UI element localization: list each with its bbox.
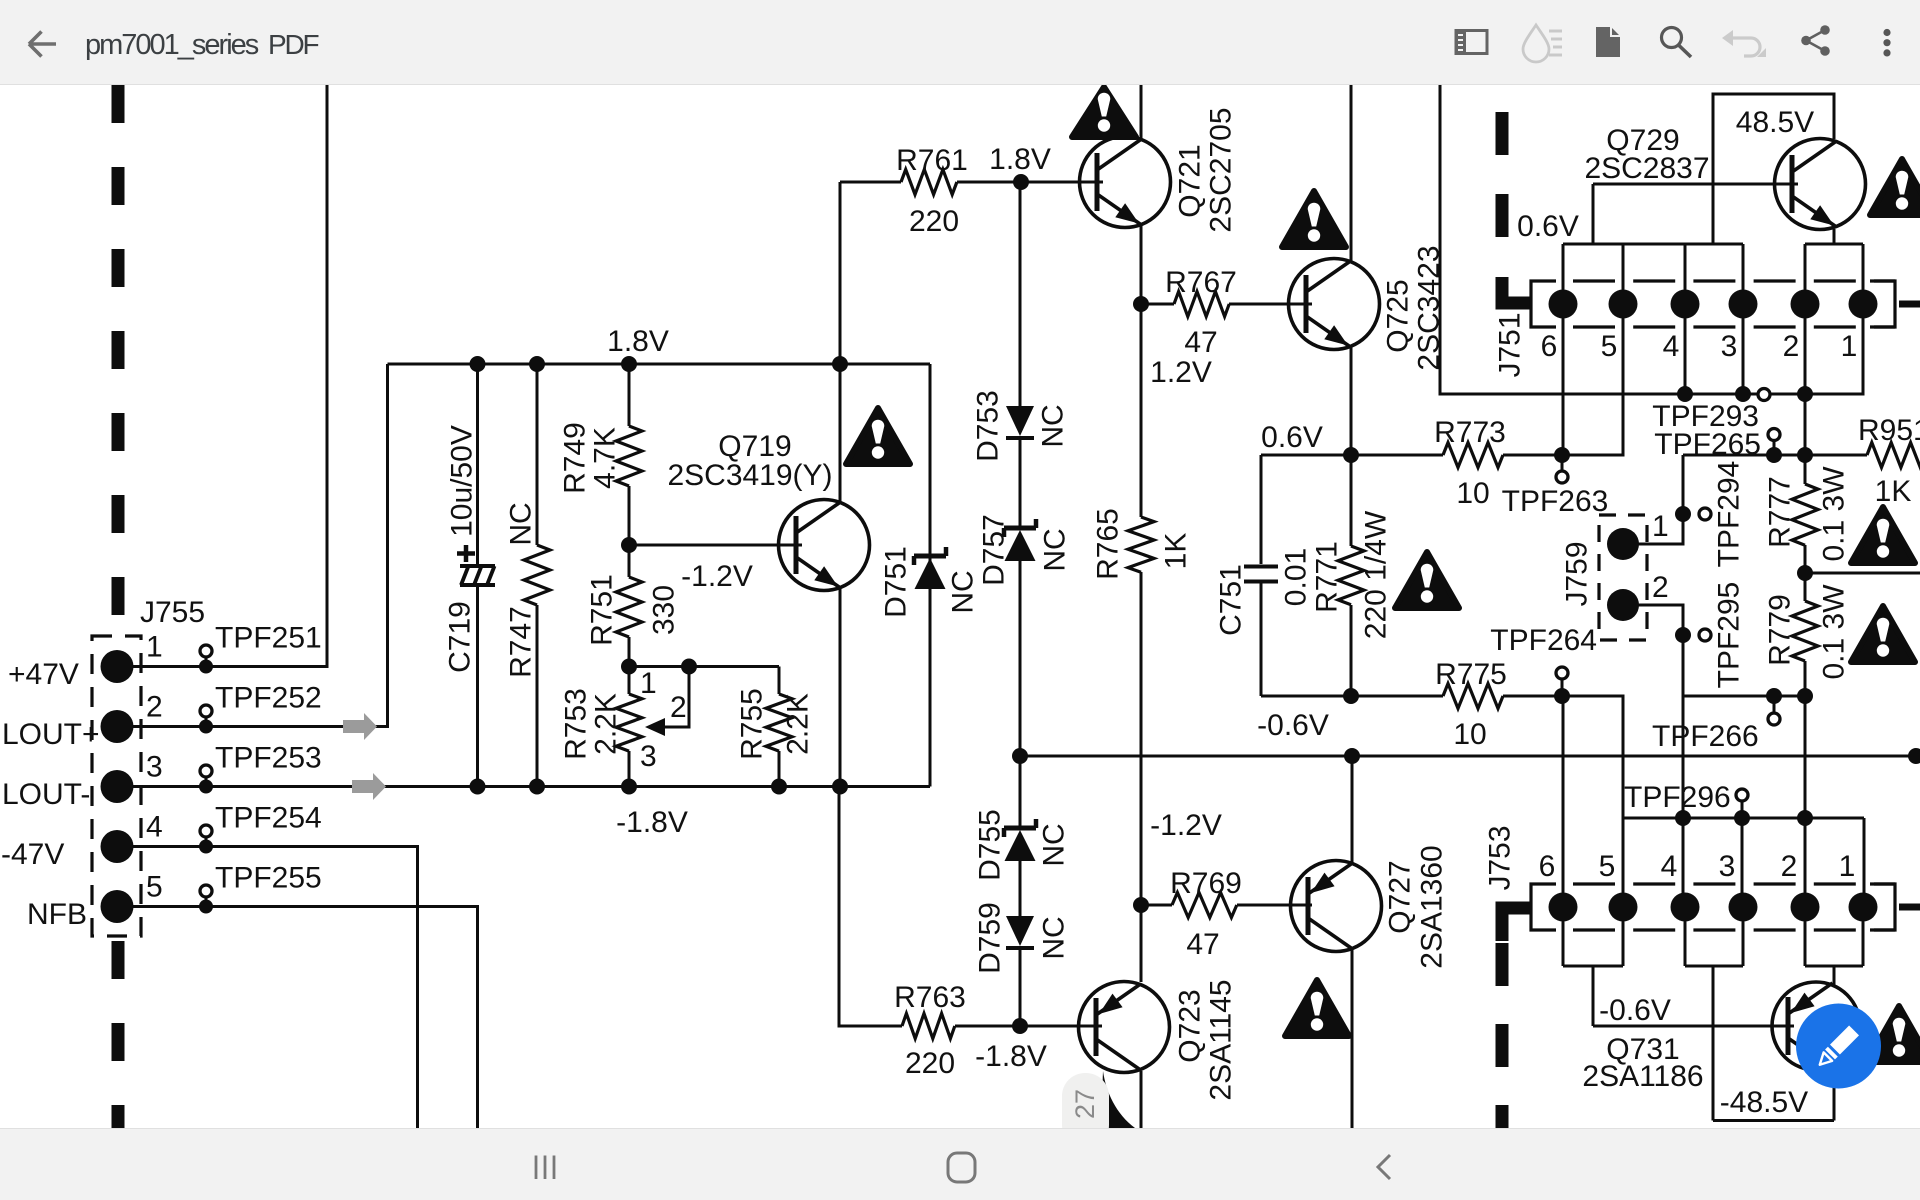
svg-text:R771: R771 [1311,541,1344,613]
wire J753 pin3 leg [1741,818,1744,893]
resistor R763 [902,1014,955,1039]
wire LOUT+ pin2 to 1.8V rail riser [133,364,388,727]
svg-text:1.8V: 1.8V [989,143,1051,176]
test point TPF294 [1699,508,1711,520]
svg-text:NC: NC [947,570,980,613]
junction TPF263 [1554,447,1570,463]
svg-text:R747: R747 [505,606,538,678]
svg-text:1: 1 [146,631,163,664]
wire J751 pin leg up [1862,244,1865,292]
wire Q731 emitter riser [1833,966,1836,985]
svg-text:Q723: Q723 [1174,989,1207,1062]
svg-text:1: 1 [1841,330,1858,363]
test point TPF265 [1773,441,1776,455]
svg-text:C751: C751 [1215,564,1248,636]
junction y818 [1797,810,1813,826]
svg-text:TPF251: TPF251 [215,622,322,655]
svg-text:TPF255: TPF255 [215,862,322,895]
wire trimmer wiper [652,667,689,728]
svg-text:220: 220 [909,205,959,238]
diode D755 zener [1002,828,1007,837]
svg-text:TPF254: TPF254 [215,802,322,835]
wire -47V pin4 down [133,847,418,1129]
wire J753 pin6 riser [1562,696,1565,893]
svg-text:1K: 1K [1160,533,1193,570]
wire collector net riser [1440,85,1863,394]
svg-text:5: 5 [1599,850,1616,883]
svg-text:2SA1360: 2SA1360 [1416,845,1449,968]
svg-text:pm7001_series: pm7001_series [85,29,259,61]
wire J759 pin2 to TPF295 [1638,605,1683,696]
wire D751 column (1.8V to -1.8V) [929,364,932,787]
svg-text:4: 4 [1661,850,1678,883]
resistor R779 [1792,601,1818,661]
warning triangle Q727 [1285,980,1349,1036]
wire J751 pin leg down [1622,316,1625,455]
svg-text:NFB: NFB [27,898,87,931]
icon document [1596,27,1620,57]
svg-text:PDF: PDF [268,29,318,60]
svg-text:NC: NC [505,502,538,545]
wire Q721 emitter column [1140,226,1143,517]
svg-text:2: 2 [146,691,163,724]
svg-text:2SA1145: 2SA1145 [1205,979,1238,1100]
wire NFB pin5 down [133,907,478,1129]
svg-text:1.2V: 1.2V [1150,356,1212,389]
wire J751 pin leg up [1622,244,1625,292]
transistor Q721 2SC2705 [1080,137,1171,228]
connector J759 pin 2 [1607,589,1639,621]
floating action button edit [1796,1004,1881,1089]
svg-text:-1.2V: -1.2V [681,560,753,593]
junction TPF266 wire left [1797,688,1813,704]
junction [771,779,787,795]
test point TPF293 [1758,389,1770,401]
resistor R761 [840,181,901,184]
test point TPF251 [205,657,208,667]
svg-text:LOUT-: LOUT- [2,778,90,811]
wire -48.5V riser [1712,966,1715,1121]
svg-text:6: 6 [1541,330,1558,363]
svg-text:-48.5V: -48.5V [1720,1086,1808,1119]
junction [529,779,545,795]
svg-text:5: 5 [146,871,163,904]
svg-text:2: 2 [670,691,687,724]
svg-text:TPF264: TPF264 [1490,624,1597,657]
svg-text:R777: R777 [1764,476,1797,548]
svg-text:4.7K: 4.7K [589,427,622,489]
svg-text:2: 2 [1783,330,1800,363]
wire J751 pin leg down [1562,316,1565,455]
wire Q725 emitter [1350,346,1353,455]
connector J751 pin 4 [1671,290,1700,319]
gray signal arrow LOUT- [352,773,386,800]
junction TPF266 [1766,688,1782,704]
svg-text:R751: R751 [586,574,619,646]
wire J753 pin leg down [1562,920,1565,966]
wire J751 pin leg down [1862,316,1865,394]
svg-text:TPF253: TPF253 [215,742,322,775]
svg-text:R951: R951 [1858,414,1920,447]
svg-text:47: 47 [1184,326,1217,359]
wire Q731 base [1593,1025,1794,1028]
svg-text:R755: R755 [736,688,769,760]
svg-text:Q725: Q725 [1382,279,1415,352]
svg-text:TPF294: TPF294 [1713,461,1746,568]
svg-text:-0.6V: -0.6V [1257,709,1329,742]
svg-text:D757: D757 [978,514,1011,586]
wire TPF294 riser [1638,455,1683,544]
svg-text:+47V: +47V [8,658,79,691]
svg-text:D753: D753 [972,390,1005,462]
warning triangle R779 [1851,606,1915,662]
nav back [1378,1155,1390,1179]
junction diode chain / rail [1012,748,1028,764]
test point TPF255 [205,897,208,907]
warning triangle R951 [1851,507,1915,563]
svg-text:1: 1 [640,667,657,700]
wire Q719 emitter [839,587,842,787]
svg-text:TPF295: TPF295 [1713,582,1746,689]
icon undo (disabled) [1729,38,1760,56]
wire R753 top to R755 [629,665,779,668]
transistor Q731 2SA1186 [1772,982,1860,1070]
warning triangle Q719 [846,408,910,464]
wire 48.5V loop [1593,94,1834,244]
back arrow [29,32,56,57]
wire TPF266 net [1683,695,1805,698]
svg-text:3: 3 [146,751,163,784]
svg-text:10u/50V: 10u/50V [446,425,479,537]
capacitor C751 [1260,455,1263,564]
test point TPF295 [1699,629,1711,641]
junction R771 top [1343,447,1359,463]
svg-text:R765: R765 [1092,508,1125,580]
svg-text:TPF263: TPF263 [1502,485,1609,518]
svg-text:2.2K: 2.2K [590,693,623,755]
transistor Q729 2SC2837 [1775,139,1866,230]
wire R763 feed [839,787,902,1027]
svg-text:1: 1 [1652,510,1669,543]
junction y394 [1735,386,1751,402]
wire -48.5V box [1713,1119,1834,1122]
svg-text:NC: NC [1039,528,1072,571]
resistor R751 [628,545,631,577]
test point TPF296 [1741,802,1744,818]
svg-text:0.6V: 0.6V [1261,421,1323,454]
wire J753 pin leg down [1742,920,1745,966]
junction Q727 emitter / rail [1344,748,1360,764]
wire +47V pin1 to top net [133,85,327,667]
svg-text:J753: J753 [1484,825,1517,890]
test point TPF266 [1773,696,1776,712]
wire J753 pin leg down [1862,920,1865,966]
junction [621,356,637,372]
svg-text:5: 5 [1601,330,1618,363]
junction R769 [1133,897,1149,913]
wire J753 pin leg down [1622,920,1625,966]
junction rail right end [1908,748,1920,764]
junction TPF295 [1675,627,1691,643]
resistor R771 [1350,455,1353,546]
svg-text:47: 47 [1186,928,1219,961]
resistor R755 [778,667,781,695]
svg-text:LOUT+: LOUT+ [2,718,100,751]
junction R777/R779 [1797,565,1813,581]
wire Q727 emitter [1351,756,1354,863]
thick dashed boundary bottom right [1502,908,1530,941]
wire TPF296 net [1623,817,1864,820]
warning triangle Q729 [1870,159,1920,215]
svg-text:R749: R749 [559,422,592,494]
junction y394 [1677,386,1693,402]
resistor R765 [1140,516,1143,519]
svg-text:27: 27 [1070,1089,1100,1119]
test point TPF253 [205,777,208,787]
thick dashed boundary top right [1496,112,1509,240]
capacitor C719 polarized [476,364,479,566]
resistor R777 [1804,395,1807,484]
svg-text:330: 330 [648,585,681,635]
svg-text:R773: R773 [1434,416,1506,449]
svg-text:D755: D755 [974,809,1007,881]
icon search [1662,28,1682,48]
node Q719 base junction [621,537,637,553]
wire J751 pin leg up [1742,244,1745,292]
svg-text:48.5V: 48.5V [1736,106,1814,139]
connector J753 pin 4 [1671,893,1700,922]
svg-text:R775: R775 [1435,658,1507,691]
black triangle decoration [1103,1071,1135,1128]
wire Q731 base riser [1592,966,1595,1026]
junction TPF294 [1675,506,1691,522]
junction R771 bottom [1343,688,1359,704]
svg-text:R769: R769 [1170,867,1242,900]
junction TPF265/R951 [1766,447,1782,463]
diode D751 zener [912,556,917,565]
svg-text:0.1 3W: 0.1 3W [1818,584,1851,680]
transistor Q719 2SC3419 [779,500,870,591]
page number tab 27 [1062,1073,1109,1148]
svg-text:0.01: 0.01 [1280,548,1313,606]
wire Q725 collector [1350,85,1353,262]
wire diode chain column [1019,182,1022,406]
svg-text:-1.8V: -1.8V [975,1040,1047,1073]
warning triangle R771 [1395,552,1459,608]
connector J755 pin 2 [101,710,134,743]
wire J753 pin1 leg [1863,818,1866,893]
svg-text:Q727: Q727 [1384,860,1417,933]
wire tap to right [1805,572,1920,575]
svg-text:J759: J759 [1561,541,1594,606]
resistor R767 [1141,303,1174,306]
wire J753 pin leg down [1804,920,1807,966]
svg-text:3: 3 [1719,850,1736,883]
svg-text:6: 6 [1539,850,1556,883]
wire Q719 collector [839,364,842,503]
wire Q731 collector [1833,1067,1836,1121]
svg-text:3: 3 [640,740,657,773]
wire J753 pair loops [1563,965,1623,968]
transistor Q727 2SA1360 [1291,861,1382,952]
wire J751 pin leg down [1684,316,1687,394]
resistor R773 [1443,443,1503,468]
svg-text:2SC2837: 2SC2837 [1584,152,1709,185]
wire Q723 emitter column [1140,572,1143,982]
connector J751 pin 3 [1729,290,1758,319]
svg-text:NC: NC [1038,916,1071,959]
warning triangle Q731 [1867,1006,1920,1062]
resistor R769 [1141,904,1172,907]
resistor R775 [1443,684,1503,709]
svg-text:10: 10 [1453,718,1486,751]
wire mid output rail [1020,755,1916,758]
top app bar [0,0,1920,85]
wire Q721 collector [1140,85,1143,139]
svg-text:R767: R767 [1165,266,1237,299]
connector J753 pin 1 [1849,893,1878,922]
svg-text:4: 4 [1663,330,1680,363]
svg-text:2SC2705: 2SC2705 [1205,107,1238,232]
svg-text:0.1 3W: 0.1 3W [1818,466,1851,562]
svg-text:-47V: -47V [1,838,64,871]
nav home [948,1153,975,1182]
connector J753 box [1531,884,1556,930]
svg-text:TPF266: TPF266 [1652,720,1759,753]
icon side panel [1456,31,1487,54]
junction R767 [1133,296,1149,312]
connector J755 pin 1 [101,650,134,683]
junction y818 [1734,810,1750,826]
svg-text:TPF252: TPF252 [215,682,322,715]
icon share [1801,25,1830,56]
connector J753 pin 2 [1791,893,1820,922]
test point TPF252 [205,717,208,727]
junction [832,779,848,795]
wire Q729 emitter to pins [1833,229,1836,244]
svg-text:2: 2 [1652,571,1669,604]
test point TPF263 [1561,455,1564,470]
resistor R749 [628,364,631,426]
svg-text:R779: R779 [1764,594,1797,666]
connector J753 pin 3 [1729,893,1758,922]
wire R763 to Q723 base [955,1025,1102,1028]
svg-text:1K: 1K [1875,475,1912,508]
svg-text:-1.8V: -1.8V [616,806,688,839]
diode D759 [1006,916,1034,946]
svg-text:1: 1 [1839,850,1856,883]
junction y394 [1797,386,1813,402]
connector J753 pin 6 [1549,893,1578,922]
connector J755 pin 5 [101,890,134,923]
test point TPF264 [1561,680,1564,696]
wire J751 pin leg down [1742,316,1745,394]
svg-text:C719: C719 [444,601,477,673]
connector J751 pin 5 [1609,290,1638,319]
svg-text:2: 2 [1781,850,1798,883]
wire J751 pin leg down [1804,316,1807,455]
connector J751 box [1531,281,1556,327]
thick dashed board boundary left [112,85,125,636]
warning triangle Q725 [1282,191,1346,247]
svg-text:R761: R761 [896,144,968,177]
junction [470,779,486,795]
svg-text:0.6V: 0.6V [1517,210,1579,243]
junction [621,779,637,795]
wire Q719 base [629,544,802,547]
wire J751 pin leg up [1562,244,1565,292]
icon overflow menu [1883,29,1890,57]
svg-text:Q721: Q721 [1174,144,1207,217]
connector J755 pin 3 [101,770,134,803]
connector J753 pin 5 [1609,893,1638,922]
junction R751/R753 [621,659,637,675]
connector J751 pin 1 [1849,290,1878,319]
diode D753 [1006,406,1034,436]
junction TPF264 [1554,688,1570,704]
trimmer R753 [628,667,631,695]
junction R777 top [1797,447,1813,463]
wire Q727 collector [1351,949,1354,1128]
svg-text:D759: D759 [974,902,1007,974]
bottom navigation bar [0,1128,1920,1200]
diode D757 zener [1002,528,1007,537]
wire R761 feed riser [839,182,842,364]
svg-text:NC: NC [1037,404,1070,447]
junction [470,356,486,372]
wire J751 pin leg up [1804,244,1807,292]
svg-text:220: 220 [905,1047,955,1080]
wire Q729 base [1593,183,1798,186]
svg-text:NC: NC [1038,823,1071,866]
svg-text:-0.6V: -0.6V [1599,994,1671,1027]
connector J759 box [1599,515,1647,640]
svg-text:-1.2V: -1.2V [1150,809,1222,842]
node 1.8V rail [388,363,931,366]
node 0.6V rail [1261,454,1443,457]
svg-text:3: 3 [1721,330,1738,363]
resistor R951 [1683,454,1867,457]
resistor R747 [536,364,539,545]
svg-text:2SA1186: 2SA1186 [1582,1060,1703,1093]
wire LOUT- pin3 / -1.8V rail [133,785,930,788]
svg-text:2.2K: 2.2K [782,693,815,755]
wire R773 to pin5 [1503,318,1623,455]
svg-text:R753: R753 [560,688,593,760]
connector J755 box [92,636,141,936]
svg-text:D751: D751 [880,546,913,618]
nav recents [536,1156,554,1180]
icon comment water drop (disabled) [1523,25,1549,62]
wire J751 pin leg up [1684,244,1687,292]
connector J755 pin 4 [101,830,134,863]
junction wiper [681,659,697,675]
svg-text:1.8V: 1.8V [607,325,669,358]
svg-text:4: 4 [146,811,163,844]
svg-text:TPF296: TPF296 [1624,781,1731,814]
wire J753 pin4 riser [1682,696,1685,893]
wire R775 to J753 pin5 riser [1503,696,1623,893]
wire Q729 base riser [1592,184,1595,244]
warning triangle top [1072,87,1136,137]
junction diode chain top [1013,174,1029,190]
svg-text:220 1/4W: 220 1/4W [1360,510,1393,639]
svg-text:R763: R763 [894,981,966,1014]
wire J753 pin leg down [1684,920,1687,966]
svg-text:2SC3419(Y): 2SC3419(Y) [667,459,832,492]
svg-text:J755: J755 [140,596,205,629]
junction y818 [1675,810,1691,826]
